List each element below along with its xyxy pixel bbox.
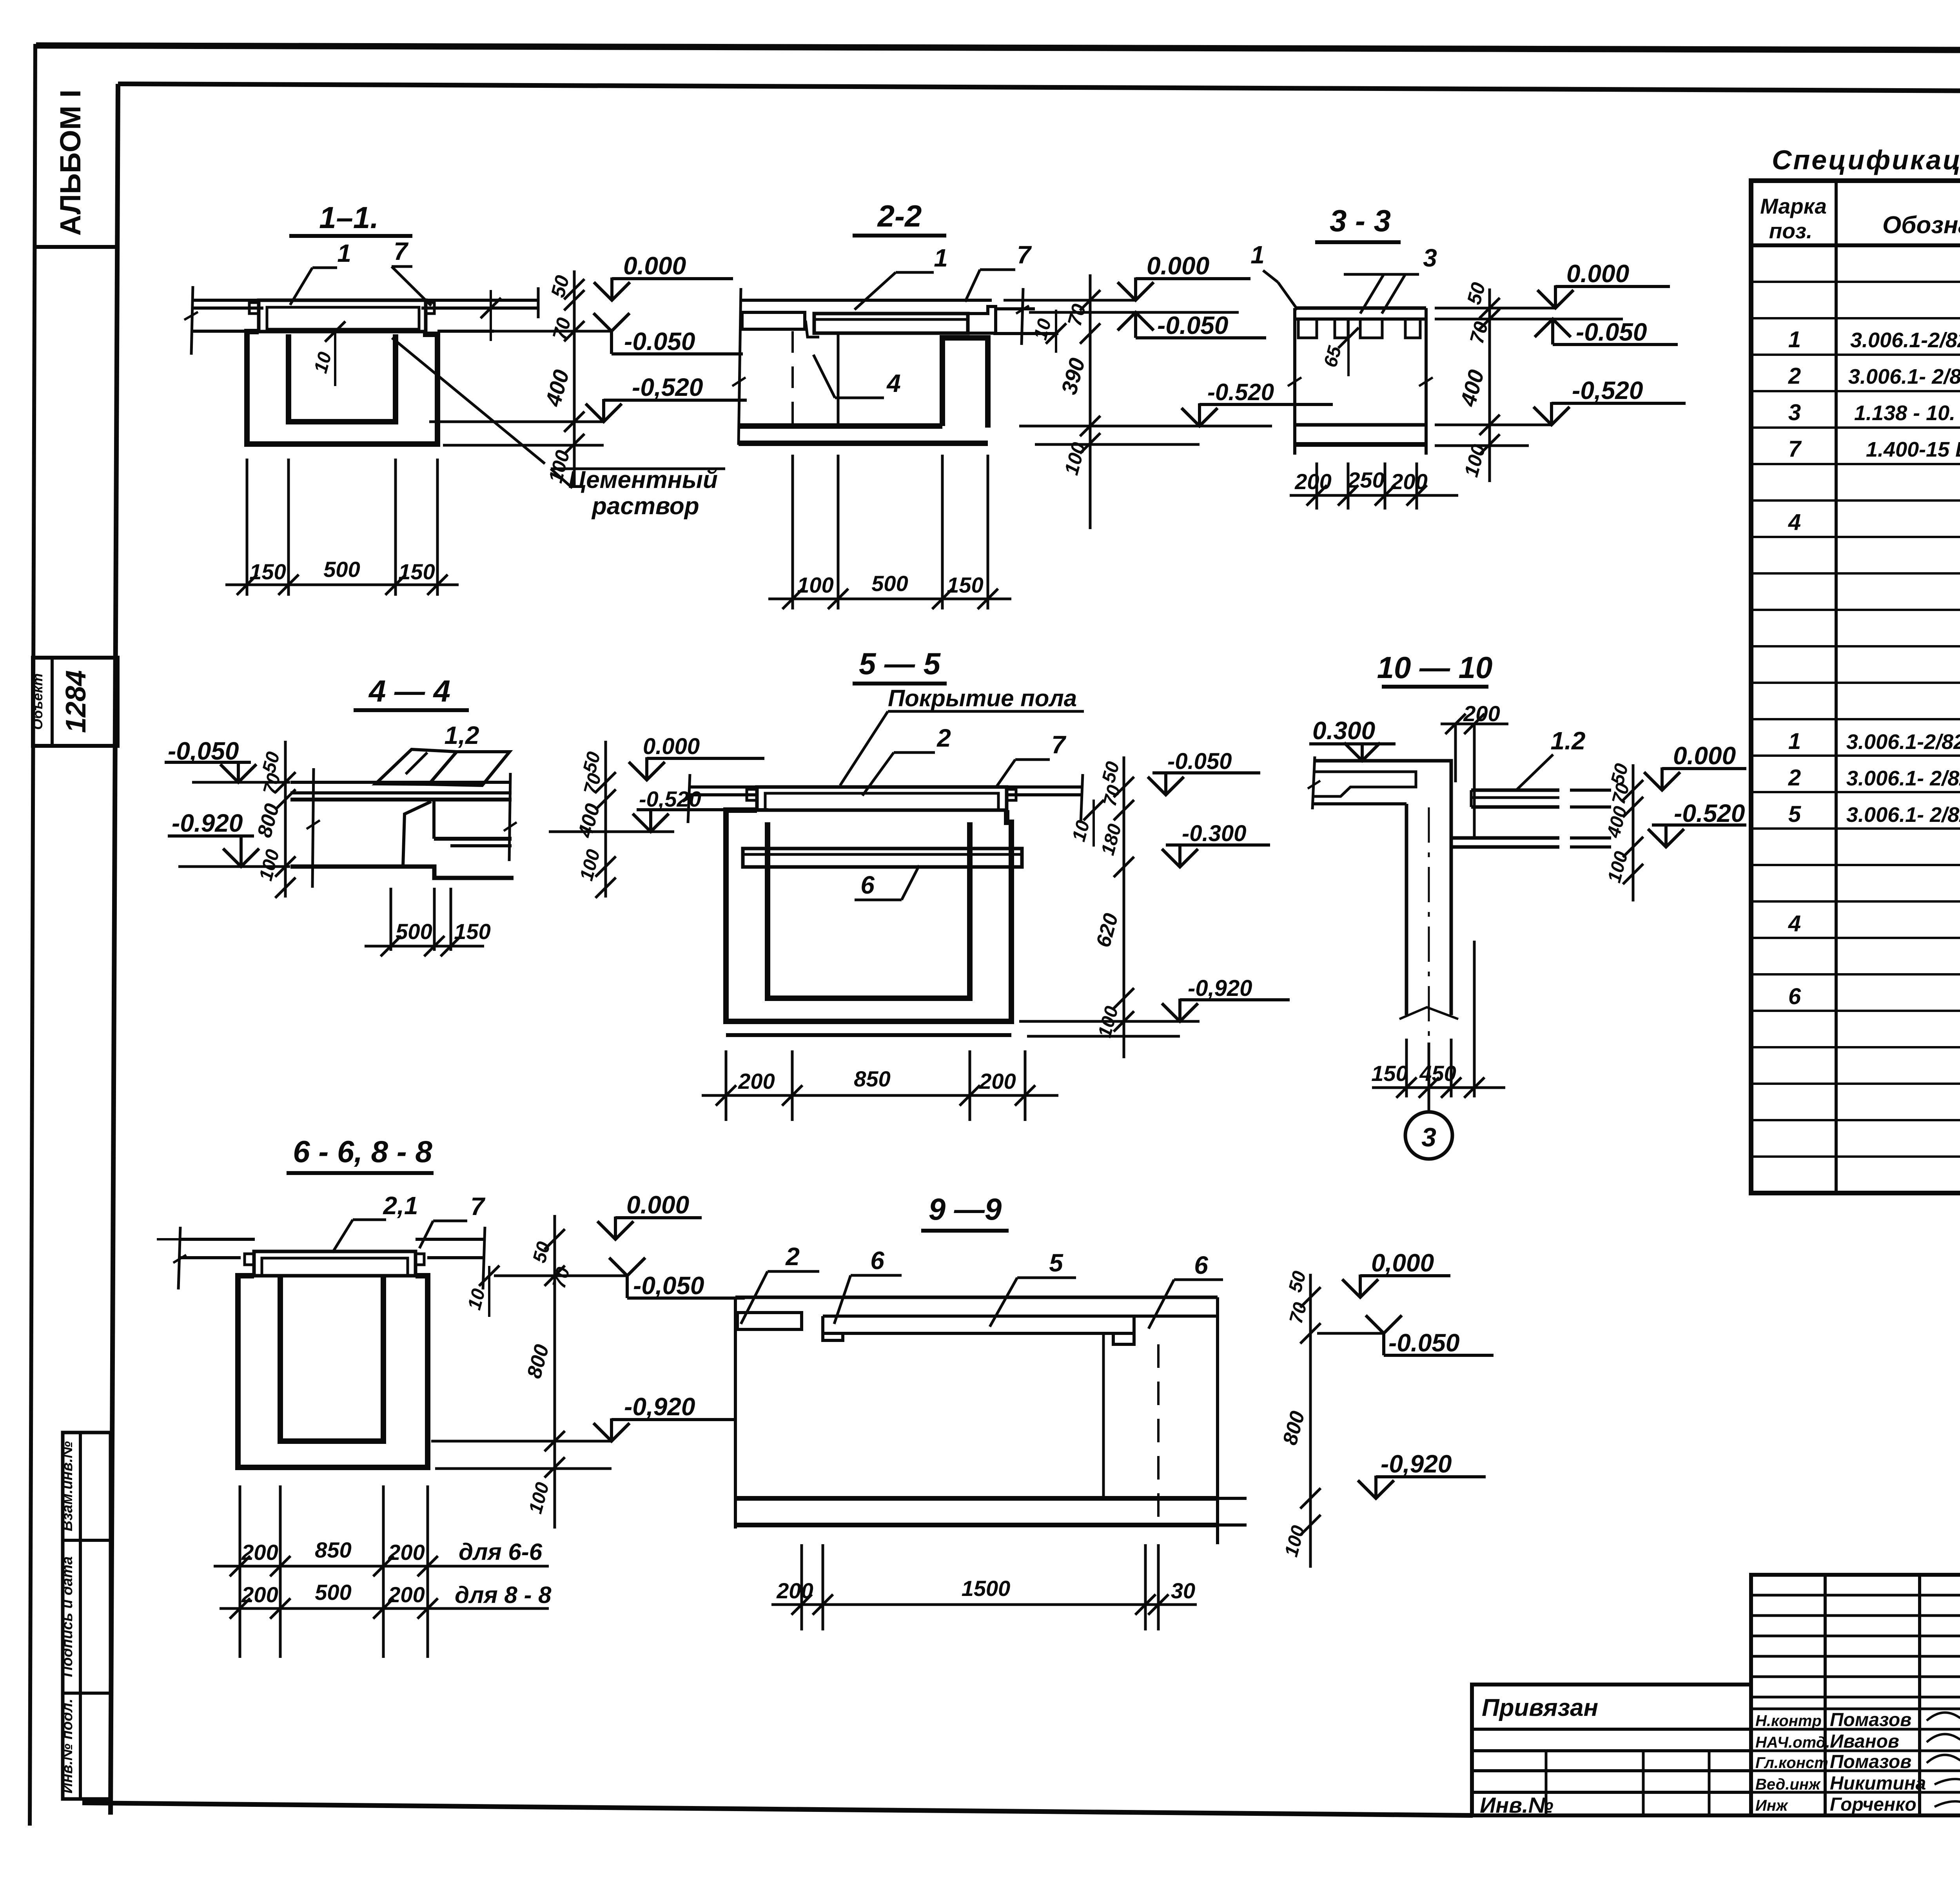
svg-text:Взам.инв.№: Взам.инв.№ (59, 1441, 76, 1531)
floor lines (689, 785, 757, 789)
svg-text:-0,920: -0,920 (1381, 1450, 1452, 1478)
centerline (1428, 807, 1430, 1043)
svg-text:6: 6 (870, 1246, 884, 1275)
right step (434, 837, 512, 841)
svg-text:2,1: 2,1 (383, 1191, 418, 1220)
level 0.000 right (629, 757, 665, 780)
svg-text:3.006.1- 2/82 Вып.1-2: 3.006.1- 2/82 Вып.1-2 (1846, 767, 1960, 790)
left break (178, 1227, 180, 1289)
level -0.520 (1435, 424, 1552, 426)
bottom slab (735, 1496, 1218, 1501)
long plate 5 (823, 1315, 1134, 1318)
inner vertical (837, 334, 840, 426)
level -0.920 (1019, 1020, 1200, 1023)
left break (688, 774, 690, 823)
svg-text:200: 200 (241, 1582, 278, 1607)
inner frame left (111, 84, 118, 1815)
trench wedge below (403, 801, 431, 867)
left break line (312, 768, 314, 888)
svg-text:3: 3 (1788, 400, 1801, 425)
svg-text:150: 150 (947, 573, 983, 597)
svg-text:10 — 10: 10 — 10 (1377, 650, 1493, 685)
axis circle 3 (1428, 1043, 1430, 1112)
svg-text:0.000: 0.000 (626, 1191, 689, 1219)
level -0.050 (1148, 777, 1184, 795)
svg-text:200: 200 (776, 1578, 813, 1603)
deep U channel (238, 1276, 428, 1467)
left edge (734, 1297, 737, 1529)
top slab (1314, 761, 1451, 804)
svg-text:Помазов: Помазов (1830, 1752, 1911, 1772)
channel U body (247, 332, 437, 444)
svg-text:5 — 5: 5 — 5 (859, 646, 941, 681)
svg-text:Марка: Марка (1760, 194, 1827, 218)
bottom dim chain 150 450 (1405, 1039, 1408, 1097)
level 0.000 (1342, 1275, 1378, 1297)
header bottom (1751, 243, 1960, 247)
svg-text:раствор: раствор (591, 493, 699, 520)
svg-text:Обозначение: Обозначение (1882, 212, 1960, 239)
svg-text:100: 100 (797, 573, 833, 597)
svg-text:30: 30 (1171, 1578, 1195, 1603)
lower rotated boxes (59, 1433, 111, 1799)
svg-text:Подпись и дата: Подпись и дата (59, 1556, 76, 1677)
svg-text:450: 450 (1419, 1061, 1456, 1086)
svg-text:-0,920: -0,920 (624, 1393, 695, 1421)
svg-text:6: 6 (860, 871, 875, 899)
svg-text:5: 5 (1049, 1249, 1063, 1277)
svg-text:3.006.1- 2/82, Вып.1-2: 3.006.1- 2/82, Вып.1-2 (1848, 365, 1960, 388)
bottom dimension chain 200 250 200 (1316, 462, 1318, 510)
svg-text:6: 6 (1788, 984, 1801, 1009)
cement mortar leader (392, 338, 545, 464)
right dimension chain (1309, 1274, 1312, 1568)
level -0.050 (494, 1275, 627, 1277)
svg-text:0.000: 0.000 (623, 252, 686, 280)
svg-text:Горченко: Горченко (1830, 1794, 1916, 1815)
dim 65 (1347, 319, 1350, 376)
top slab lines (1295, 306, 1426, 310)
cover plate (254, 1251, 416, 1276)
small dim 10 at plate (334, 329, 336, 386)
floor lines (180, 1238, 255, 1241)
svg-text:500: 500 (871, 571, 908, 596)
svg-text:Спецификация каналов КН: Спецификация каналов КН1 , КН2 (1772, 145, 1960, 175)
right wall block (942, 338, 988, 428)
svg-text:4: 4 (1788, 911, 1801, 936)
right small floor tick (490, 290, 492, 341)
album box (34, 90, 118, 247)
svg-text:-0,520: -0,520 (639, 787, 701, 811)
table outer frame (1751, 181, 1960, 1193)
svg-text:1,2: 1,2 (445, 721, 479, 749)
privyazan left box (1472, 1685, 1751, 1815)
svg-text:200: 200 (738, 1069, 775, 1093)
svg-text:Помазов: Помазов (1830, 1710, 1911, 1730)
dim 10 small (488, 1266, 490, 1317)
svg-text:3: 3 (1421, 1122, 1436, 1152)
svg-text:-0.050: -0.050 (1157, 311, 1228, 339)
vertical dimension chain (573, 270, 576, 486)
left plate piece (742, 312, 805, 329)
svg-text:-0.520: -0.520 (1674, 799, 1745, 827)
svg-text:2: 2 (936, 724, 951, 752)
level -0.920 (1358, 1476, 1394, 1498)
cover plate 1 (259, 300, 426, 332)
svg-text:поз.: поз. (1769, 219, 1813, 243)
svg-text:2: 2 (785, 1242, 800, 1271)
left dash-dot floor continuation (157, 1238, 184, 1240)
corner pieces (747, 789, 757, 800)
svg-text:200: 200 (1390, 469, 1427, 494)
svg-text:150: 150 (1371, 1061, 1408, 1086)
svg-text:3.006.1-2/82 Вып.1-2: 3.006.1-2/82 Вып.1-2 (1850, 328, 1960, 352)
svg-text:850: 850 (854, 1066, 890, 1091)
plate gaps (1298, 319, 1317, 338)
svg-text:3.006.1-2/82, Вып.1-2: 3.006.1-2/82, Вып.1-2 (1846, 730, 1960, 754)
outer border left (30, 44, 35, 1826)
walls of channel (726, 810, 1011, 1021)
dim 10 small (1093, 800, 1095, 847)
svg-text:200: 200 (388, 1540, 425, 1565)
floor top line (740, 299, 992, 302)
bottom chain row2 200 500 200 for 8-8 (220, 1607, 549, 1610)
slab inner contour (1314, 772, 1416, 796)
svg-text:2: 2 (1788, 765, 1801, 791)
level -0.520 (1019, 425, 1272, 428)
level 0.000 (597, 1217, 633, 1239)
svg-text:-0.050: -0.050 (1388, 1329, 1459, 1357)
element 7 at right (968, 306, 996, 333)
svg-text:1–1.: 1–1. (319, 200, 379, 235)
svg-text:200: 200 (388, 1582, 425, 1607)
object 1284 box (29, 658, 118, 746)
svg-text:-0.520: -0.520 (1207, 379, 1274, 405)
svg-text:Инв.№: Инв.№ (1480, 1793, 1553, 1817)
svg-text:200: 200 (241, 1540, 278, 1565)
middle plate 6 (743, 849, 1022, 867)
svg-text:Инж: Инж (1755, 1797, 1789, 1814)
level -0.520 (429, 421, 604, 423)
svg-text:1.2: 1.2 (1551, 727, 1586, 755)
svg-text:1.400-15 Вып. 0: 1.400-15 Вып. 0 (1866, 438, 1960, 461)
svg-text:-0,050: -0,050 (633, 1271, 704, 1300)
signatures squiggles (1927, 1711, 1960, 1721)
svg-text:2: 2 (1788, 363, 1801, 389)
svg-text:0.000: 0.000 (1147, 252, 1209, 280)
svg-text:НАЧ.отд.: НАЧ.отд. (1755, 1734, 1830, 1751)
svg-text:2-2: 2-2 (877, 199, 922, 233)
svg-text:9 —9: 9 —9 (929, 1192, 1002, 1226)
level -0.050 (447, 330, 612, 333)
embedded corner pieces (249, 303, 259, 314)
right floor lines (996, 307, 1035, 310)
svg-text:1: 1 (337, 239, 351, 267)
svg-text:1284: 1284 (60, 670, 92, 733)
svg-text:0.000: 0.000 (1566, 259, 1629, 288)
right break line (509, 773, 510, 861)
left plate piece (737, 1313, 802, 1329)
svg-text:0.300: 0.300 (1312, 716, 1375, 745)
svg-text:1: 1 (1788, 327, 1801, 352)
svg-text:150: 150 (454, 919, 490, 944)
plate 1.2 right upper (1471, 789, 1559, 792)
bottom dim chain 200 1500 30 (800, 1544, 803, 1630)
svg-text:200: 200 (1463, 701, 1500, 726)
svg-text:Инв.№ подл.: Инв.№ подл. (59, 1699, 76, 1793)
svg-text:250: 250 (1347, 468, 1384, 492)
svg-text:-0.050: -0.050 (624, 327, 695, 355)
svg-text:5: 5 (1788, 801, 1801, 827)
left dimension chain (284, 741, 287, 898)
left break line (739, 288, 741, 445)
svg-text:-0.050: -0.050 (1576, 318, 1647, 346)
hidden dashed vertical (791, 331, 794, 425)
bottom chain row1 200 850 200 for 6-6 (239, 1485, 241, 1658)
vertical dimension chain (1089, 274, 1092, 529)
bottom slab (1295, 423, 1426, 427)
svg-text:-0,920: -0,920 (1188, 976, 1252, 1001)
svg-text:3.006.1- 2/82,Вып.1-2: 3.006.1- 2/82,Вып.1-2 (1846, 803, 1960, 827)
svg-text:0,000: 0,000 (1371, 1249, 1434, 1277)
bottom slab (740, 423, 942, 429)
row lines (1751, 282, 1960, 1157)
svg-text:7: 7 (470, 1192, 486, 1220)
svg-text:4: 4 (886, 369, 901, 397)
svg-text:Привязан: Привязан (1482, 1694, 1598, 1721)
floor cont right upper (1570, 789, 1611, 792)
svg-text:-0,520: -0,520 (1572, 376, 1643, 404)
svg-text:150: 150 (398, 559, 435, 584)
column lines (1835, 181, 1838, 1193)
svg-text:7: 7 (394, 237, 409, 265)
svg-text:7: 7 (1788, 436, 1802, 462)
level -0.520 right (633, 814, 669, 832)
svg-text:-0.300: -0.300 (1182, 821, 1246, 846)
svg-text:7: 7 (1051, 731, 1067, 759)
svg-text:-0.050: -0.050 (1167, 749, 1232, 774)
level 0.000 (1118, 277, 1154, 300)
svg-text:для 6-6: для 6-6 (459, 1539, 543, 1565)
svg-text:Н.контр: Н.контр (1755, 1712, 1822, 1730)
bottom dimension chain 100 500 150 (791, 455, 794, 609)
outer border top (36, 45, 1960, 51)
svg-text:500: 500 (315, 1580, 351, 1605)
right dimension chain (1123, 756, 1125, 1058)
svg-text:0.000: 0.000 (643, 734, 700, 759)
svg-text:для 8 - 8: для 8 - 8 (455, 1582, 552, 1608)
wall below (1405, 804, 1408, 1015)
vertical dimension chain (1488, 288, 1491, 482)
right break (1081, 774, 1083, 823)
line at -100 below (443, 444, 604, 447)
svg-text:Объект: Объект (29, 673, 45, 730)
svg-text:200: 200 (979, 1069, 1016, 1093)
svg-text:1: 1 (1250, 241, 1265, 269)
break line left (191, 286, 193, 355)
right break (483, 1227, 485, 1289)
svg-text:-0,520: -0,520 (632, 373, 703, 401)
top floor line (735, 1296, 1218, 1299)
top plate 2 (757, 787, 1007, 810)
svg-text:Иванов: Иванов (1830, 1731, 1899, 1752)
level -0.920 (431, 1440, 612, 1443)
level -0.050 (1317, 1332, 1384, 1335)
corner piece 4 detail (806, 321, 819, 337)
bottom dim chain 500 150 (390, 888, 392, 951)
svg-text:Никитина: Никитина (1830, 1773, 1926, 1794)
floor slab left (192, 299, 261, 302)
svg-text:1.138 - 10. Вып. 1: 1.138 - 10. Вып. 1 (1854, 401, 1960, 425)
level -0.520 (1648, 829, 1684, 847)
level -0.050 (1435, 318, 1623, 321)
level 0.000 (1435, 307, 1555, 310)
svg-text:1: 1 (934, 244, 948, 272)
svg-text:3: 3 (1423, 244, 1437, 272)
svg-text:6 - 6, 8 - 8: 6 - 6, 8 - 8 (293, 1134, 432, 1169)
inner frame bottom left segment (82, 1803, 1473, 1815)
svg-text:850: 850 (315, 1538, 351, 1562)
svg-text:1: 1 (1788, 729, 1801, 754)
svg-text:6: 6 (1194, 1251, 1208, 1279)
svg-text:Гл.конст: Гл.конст (1755, 1754, 1828, 1772)
floor slab lines (290, 781, 512, 784)
level -0.050 (1029, 311, 1239, 314)
floor slab right (424, 299, 539, 302)
inner frame top (118, 84, 1960, 93)
svg-text:3 - 3: 3 - 3 (1330, 203, 1391, 238)
bottom slab with step (290, 867, 514, 878)
angle hooks 6 (823, 1316, 843, 1340)
plates in plan (parallelograms) (376, 749, 457, 784)
right dimension chain (604, 741, 607, 898)
left edge (1293, 308, 1296, 455)
base line (726, 1033, 1011, 1037)
break squiggle (1399, 1007, 1458, 1019)
small dim 10 (1055, 310, 1057, 353)
svg-text:4 — 4: 4 — 4 (368, 674, 450, 708)
svg-text:Покрытие пола: Покрытие пола (888, 685, 1077, 711)
main plate 1 (814, 314, 968, 333)
svg-text:7: 7 (1017, 241, 1032, 269)
svg-text:-0.920: -0.920 (172, 809, 243, 837)
level -0.300 (1162, 849, 1198, 867)
bottom dimension chain 150 500 150 (246, 459, 249, 596)
svg-text:500: 500 (396, 919, 432, 944)
right edge (1425, 308, 1428, 455)
svg-text:Вед.инж: Вед.инж (1755, 1776, 1821, 1793)
signature table (1751, 1575, 1960, 1815)
left break (1312, 756, 1315, 809)
middle verticals (1102, 1333, 1105, 1498)
svg-text:4: 4 (1788, 510, 1801, 535)
svg-text:АЛЬБОМ I: АЛЬБОМ I (54, 90, 87, 236)
svg-text:Цементный: Цементный (568, 466, 718, 493)
svg-text:150: 150 (249, 559, 286, 584)
plate lower (1453, 836, 1559, 840)
svg-text:1500: 1500 (962, 1576, 1011, 1601)
level 0.000 (1644, 767, 1680, 790)
level 0.000 (594, 277, 630, 300)
svg-text:500: 500 (323, 557, 360, 582)
right dimension chain (554, 1215, 556, 1529)
right dimension chain (1632, 764, 1635, 901)
svg-text:200: 200 (1294, 469, 1331, 494)
svg-text:0.000: 0.000 (1673, 742, 1736, 770)
bottom dimension chain 200 850 200 (725, 1050, 728, 1121)
